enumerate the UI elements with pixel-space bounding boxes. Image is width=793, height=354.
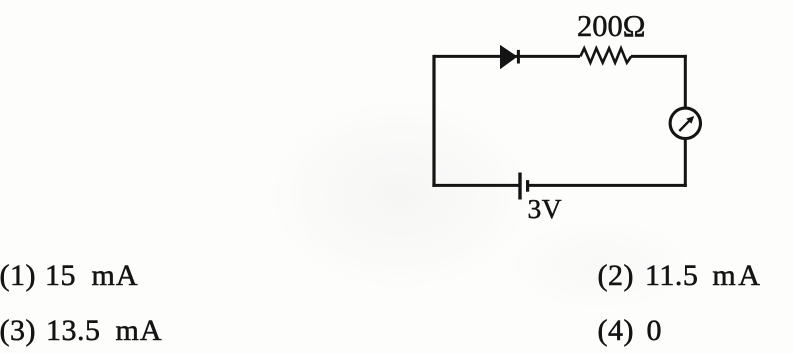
ammeter M1 needle [679,119,691,131]
svg-text:(2) 11.5 mA: (2) 11.5 mA [598,259,761,292]
svg-text:3V: 3V [528,193,563,224]
battery B1 negative plate [526,180,529,192]
resistor R1 zigzag [580,48,631,62]
wire bottom-right segment [528,184,687,187]
svg-text:(4) 0: (4) 0 [598,314,662,347]
ammeter M1 body [670,108,700,138]
battery B1 positive plate [518,173,521,200]
wire top-right segment [631,55,687,58]
wire right lower [684,139,687,187]
svg-text:(3) 13.5 mA: (3) 13.5 mA [0,314,162,347]
background shading smudge [270,100,530,290]
diode D1 (triangle anode) [500,45,518,69]
background shading smudge right [510,220,690,310]
svg-text:200Ω: 200Ω [577,9,645,43]
ammeter M1 needle arrowhead [686,116,694,124]
wire bottom-left segment [432,184,520,187]
svg-text:(1) 15 mA: (1) 15 mA [0,259,138,292]
wire left [432,55,435,187]
wire top-left segment [434,55,580,58]
wire right upper [684,55,687,108]
diode D1 cathode bar [517,50,520,64]
